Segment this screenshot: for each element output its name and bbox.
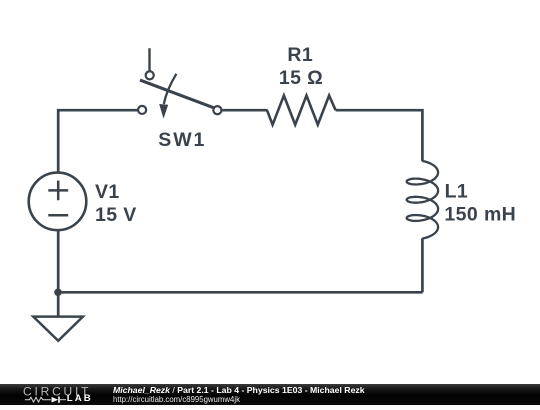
resistor R1 zigzag — [267, 96, 336, 125]
wire V1 top to SW1 left terminal — [58, 110, 137, 172]
svg-text:15 V: 15 V — [95, 204, 137, 226]
ground junction dot — [54, 289, 62, 297]
wire R1 to top-right corner down to L1 — [336, 110, 423, 161]
inductor L1 coil — [407, 161, 438, 239]
V1 plus sign — [48, 181, 68, 201]
bottom wire (ground net) — [58, 291, 422, 294]
switch SW1 left terminal — [138, 106, 146, 114]
svg-text:L1: L1 — [445, 181, 469, 203]
V1 minus sign — [48, 214, 68, 217]
switch SW1 arrowhead — [159, 104, 168, 119]
switch SW1 right terminal — [213, 106, 221, 114]
svg-text:LAB: LAB — [67, 393, 93, 404]
footer bar — [0, 384, 540, 405]
switch SW1 top terminal — [146, 71, 154, 79]
logo diode — [52, 397, 59, 403]
switch SW1 top stub — [148, 48, 150, 70]
CircuitLab logo — [0, 384, 112, 410]
switch SW1 toggle arrow arc — [164, 74, 177, 104]
voltage source V1 body — [29, 173, 87, 231]
wire L1 to bottom-right corner — [421, 238, 424, 292]
svg-text:R1: R1 — [287, 44, 313, 66]
svg-text:150 mH: 150 mH — [444, 203, 516, 225]
wire SW1 right terminal to R1 — [222, 109, 267, 112]
wire V1 bottom to ground — [57, 231, 60, 317]
svg-text:15 Ω: 15 Ω — [279, 67, 323, 89]
svg-text:V1: V1 — [95, 181, 120, 203]
svg-text:SW1: SW1 — [158, 129, 206, 151]
switch SW1 blade — [140, 80, 215, 108]
logo resistor zigzag — [25, 397, 66, 403]
ground symbol — [33, 317, 83, 341]
footer title text — [113, 386, 365, 405]
